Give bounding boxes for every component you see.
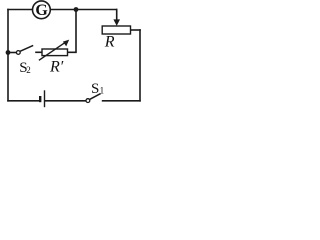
wire top-left segment [8,9,32,11]
svg-text:G: G [35,2,48,19]
rheostat R' [39,40,69,76]
resistor R [102,19,130,50]
switch S2 [8,45,42,75]
wire bottom-right segment [103,100,140,102]
switch S1 [86,81,104,103]
wire wiper drop [116,10,118,21]
battery [40,90,44,107]
wire bottom-middle segment [45,100,86,102]
wire bottom-left segment [8,100,39,102]
wire top-right segment [51,9,117,11]
svg-text:S: S [91,81,99,97]
svg-text:1: 1 [100,86,105,96]
svg-text:R: R [104,34,115,51]
wire junction branch vertical [68,10,77,53]
node junction dot top [74,7,79,12]
svg-text:R′: R′ [49,59,64,76]
svg-text:2: 2 [26,65,31,75]
wire left vertical [7,10,9,101]
wire right vertical [139,30,141,101]
wire R right lead [131,29,141,31]
galvanometer G [33,1,51,19]
node junction dot left [6,50,11,55]
